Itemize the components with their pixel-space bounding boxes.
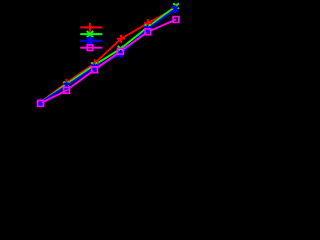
series 2 green x markers [38,3,179,105]
series 1 red line [41,8,176,102]
series 2 green line [41,6,177,103]
legend entry 2: green line with x marker [80,31,102,37]
legend entry 4: magenta line with square marker [80,45,102,51]
series 4 magenta line [41,20,176,104]
series 3 blue line [40,9,175,103]
series 3 blue star markers [38,5,179,107]
legend entry 3: blue line with star marker [80,36,102,45]
series 4 magenta square markers [38,17,179,107]
legend entry 1: red line with plus marker [80,23,102,32]
series 1 red plus markers [37,4,180,106]
